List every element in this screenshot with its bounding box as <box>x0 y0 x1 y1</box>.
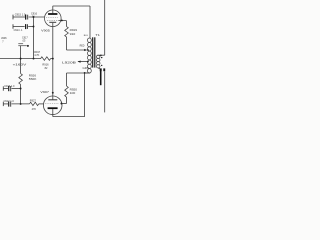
svg-text:+160V: +160V <box>13 63 27 67</box>
svg-text:C912 1.0: C912 1.0 <box>4 100 15 103</box>
svg-text:R926: R926 <box>29 73 37 77</box>
svg-text:910: 910 <box>70 32 76 36</box>
svg-text:C913 1.0: C913 1.0 <box>4 85 15 88</box>
svg-text:RED: RED <box>80 46 85 48</box>
svg-text:C914 .1: C914 .1 <box>14 29 23 32</box>
svg-text:4.7K: 4.7K <box>34 54 39 57</box>
svg-text:C915 1.0: C915 1.0 <box>15 12 26 16</box>
svg-text:100: 100 <box>70 91 76 95</box>
svg-text:GRN: GRN <box>83 68 90 70</box>
svg-text:V905: V905 <box>41 29 50 33</box>
svg-text:R927: R927 <box>30 99 37 102</box>
svg-text:R916: R916 <box>42 62 49 66</box>
svg-text:R919: R919 <box>70 28 78 32</box>
svg-text:R920: R920 <box>70 87 78 91</box>
svg-text:BLU: BLU <box>84 35 89 37</box>
svg-text:550K: 550K <box>29 77 37 81</box>
svg-text:47K: 47K <box>32 108 37 111</box>
svg-text:V907: V907 <box>40 90 49 94</box>
svg-text:L920B: L920B <box>62 60 76 64</box>
svg-text:T1: T1 <box>95 33 100 37</box>
